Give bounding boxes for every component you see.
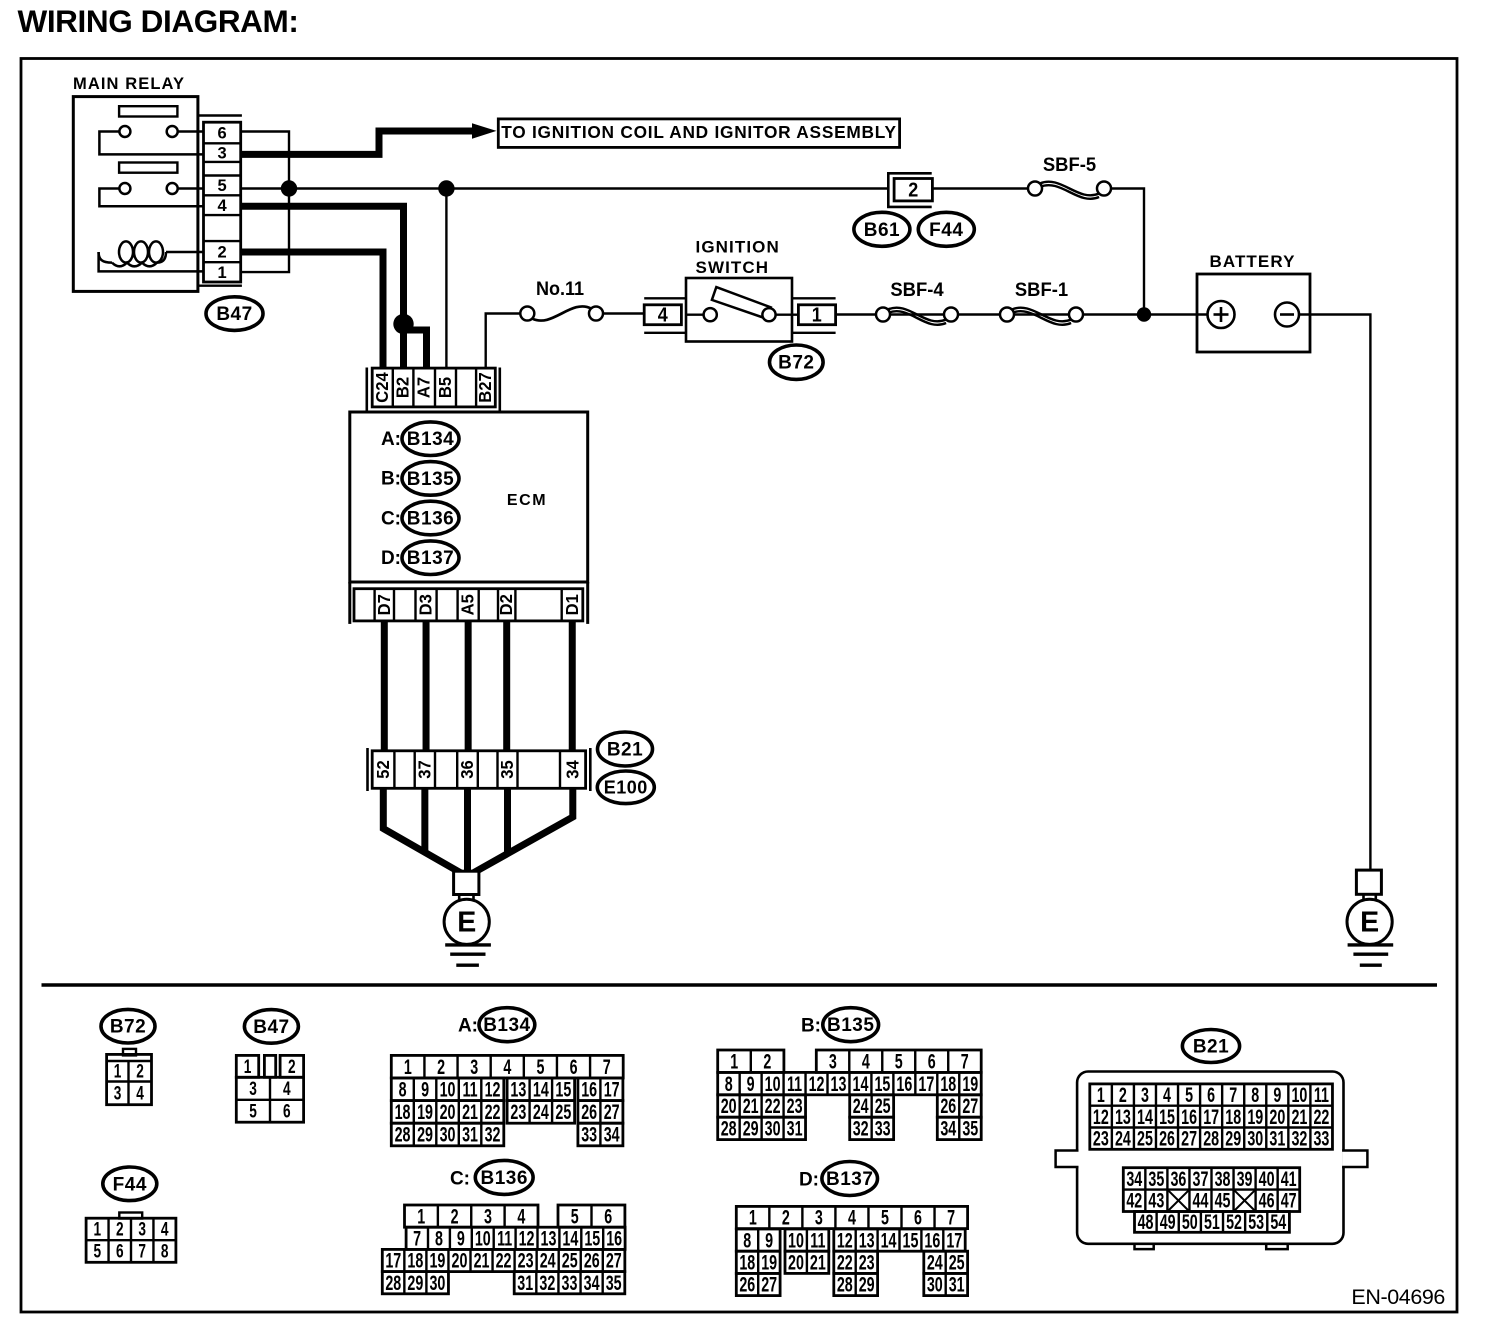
svg-text:5: 5 [93,1241,101,1263]
connector F44 pinout [86,1213,176,1263]
relay contact 1b [167,126,178,137]
svg-text:11: 11 [810,1229,825,1252]
svg-text:A5: A5 [458,594,477,615]
wire D2 to pin 35 [503,621,510,751]
wire relay contact1b to pin 6 [178,130,204,133]
svg-text:4: 4 [136,1082,144,1104]
svg-text:3: 3 [829,1050,837,1073]
svg-text:D:: D: [381,548,401,569]
wire A5 to pin 36 [465,621,472,751]
svg-text:7: 7 [947,1206,955,1229]
svg-text:26: 26 [584,1249,600,1272]
connector ECM top strip cells C24 B2 A7 B5 B27 [372,368,495,407]
svg-text:SBF-1: SBF-1 [1015,279,1068,300]
svg-text:25: 25 [949,1251,965,1274]
svg-text:37: 37 [415,760,434,778]
svg-text:B47: B47 [253,1017,289,1038]
svg-text:5: 5 [1185,1083,1193,1106]
connector label E100 oval [597,771,654,804]
svg-text:28: 28 [395,1123,411,1146]
svg-text:45: 45 [1215,1189,1231,1212]
svg-text:F44: F44 [113,1174,147,1195]
svg-text:12: 12 [837,1229,853,1252]
svg-text:18: 18 [1225,1105,1241,1128]
svg-text:A:: A: [458,1016,478,1037]
svg-text:32: 32 [853,1117,869,1140]
svg-text:31: 31 [787,1117,803,1140]
wire relay contact2 to pin 4 [99,189,203,207]
wire pin4 to ECM B2 [241,206,404,369]
svg-text:30: 30 [927,1273,943,1296]
svg-text:8: 8 [743,1229,751,1252]
svg-text:42: 42 [1126,1189,1142,1212]
svg-text:2: 2 [451,1205,459,1228]
connector B47 pin strip cells 6 3 5 4 2 1 [204,122,241,282]
connector B21 shell [1056,1072,1368,1250]
svg-text:21: 21 [810,1251,826,1274]
connector B47 pin strip bracket [198,116,242,286]
svg-text:52: 52 [373,760,392,778]
svg-text:7: 7 [603,1055,611,1078]
svg-text:31: 31 [1269,1127,1285,1150]
svg-text:E100: E100 [604,777,648,797]
wire coil left to pin 1 [99,252,204,271]
svg-text:35: 35 [1148,1167,1164,1190]
svg-text:6: 6 [1207,1083,1215,1106]
svg-text:9: 9 [747,1072,755,1095]
svg-text:13: 13 [541,1227,557,1250]
svg-text:20: 20 [452,1249,468,1272]
svg-text:17: 17 [385,1249,401,1272]
wire pin 35 to ground [504,788,511,853]
wire SBF-5 to junction [1111,189,1144,315]
svg-text:14: 14 [853,1072,869,1095]
connector B135 pinout [718,1050,982,1141]
svg-text:F44: F44 [929,220,963,241]
connector label C: B136 oval [381,501,459,535]
svg-text:1: 1 [404,1055,412,1078]
svg-text:11: 11 [497,1227,512,1250]
junction dot B2-A7 [393,314,413,334]
wire B27 to fuse No.11 [486,314,521,370]
svg-text:32: 32 [539,1271,555,1294]
svg-text:22: 22 [765,1095,781,1118]
svg-text:1: 1 [1097,1083,1105,1106]
svg-text:D:: D: [799,1170,819,1191]
title WIRING DIAGRAM [18,3,299,39]
wire pin 34 to ground [470,788,573,875]
svg-text:6: 6 [570,1055,578,1078]
wire pin2 to ECM C24 [241,252,383,369]
svg-text:24: 24 [1115,1127,1131,1150]
svg-text:5: 5 [218,177,227,195]
section divider line [42,983,1438,987]
wire relay contact2b to pin 5 [178,187,204,190]
svg-text:10: 10 [1291,1083,1307,1106]
svg-text:B136: B136 [407,509,454,530]
svg-text:5: 5 [571,1205,579,1228]
svg-text:26: 26 [940,1095,956,1118]
svg-text:40: 40 [1259,1167,1275,1190]
svg-text:29: 29 [407,1271,423,1294]
ECM U1 box [350,412,588,582]
junction dot B5 branch [438,180,454,196]
svg-text:49: 49 [1160,1210,1176,1233]
svg-text:27: 27 [761,1273,777,1296]
connector label F44 oval [918,212,974,246]
svg-text:33: 33 [1313,1127,1329,1150]
svg-text:33: 33 [875,1117,891,1140]
svg-text:18: 18 [940,1072,956,1095]
svg-text:12: 12 [519,1227,535,1250]
svg-text:17: 17 [946,1229,962,1252]
svg-text:23: 23 [859,1251,875,1274]
svg-text:24: 24 [540,1249,556,1272]
svg-text:B72: B72 [110,1017,146,1038]
connector label B: B135 oval bottom [801,1008,879,1042]
wire pin5 main feed [241,187,889,189]
svg-text:28: 28 [837,1273,853,1296]
svg-text:53: 53 [1248,1210,1264,1233]
svg-text:10: 10 [788,1229,804,1252]
svg-text:B47: B47 [216,304,252,325]
wire D1 to pin 34 [569,621,576,751]
svg-text:B61: B61 [864,220,900,241]
svg-text:1: 1 [417,1205,425,1228]
svg-text:2: 2 [288,1056,296,1078]
svg-text:A7: A7 [414,377,433,398]
svg-text:3: 3 [249,1078,257,1100]
svg-text:54: 54 [1270,1210,1286,1233]
connector 2 SBF-5 feed [888,173,932,207]
connector B47 pinout [236,1055,303,1122]
connector label A: B134 oval bottom [458,1008,535,1042]
svg-text:16: 16 [581,1078,597,1101]
connector label B47 oval bottom [244,1010,298,1044]
svg-text:13: 13 [831,1072,847,1095]
svg-text:4: 4 [517,1205,525,1228]
svg-text:18: 18 [739,1251,755,1274]
svg-text:51: 51 [1204,1210,1220,1233]
svg-text:B2: B2 [393,377,412,398]
svg-text:SBF-5: SBF-5 [1043,154,1096,175]
svg-text:32: 32 [1291,1127,1307,1150]
svg-text:5: 5 [881,1206,889,1229]
svg-text:2: 2 [437,1055,445,1078]
svg-text:2: 2 [763,1050,771,1073]
svg-text:28: 28 [721,1117,737,1140]
svg-text:3: 3 [138,1219,146,1241]
svg-text:15: 15 [903,1229,919,1252]
svg-text:3: 3 [470,1055,478,1078]
wire switch to battery positive [836,313,1208,315]
svg-text:19: 19 [1247,1105,1263,1128]
svg-text:A:: A: [381,429,401,450]
connector label B47 oval [206,297,263,331]
ground E right [1347,870,1393,965]
svg-text:29: 29 [1225,1127,1241,1150]
svg-text:25: 25 [555,1100,571,1123]
svg-text:15: 15 [555,1078,571,1101]
svg-text:27: 27 [962,1095,978,1118]
relay label MAIN RELAY [73,75,185,93]
svg-text:TO IGNITION COIL AND IGNITOR A: TO IGNITION COIL AND IGNITOR ASSEMBLY [501,122,897,142]
svg-text:35: 35 [498,760,517,778]
svg-text:3: 3 [114,1082,122,1104]
svg-text:SWITCH: SWITCH [696,258,770,277]
svg-text:B134: B134 [483,1015,530,1036]
wire pin 37 to ground [421,788,428,852]
svg-text:4: 4 [161,1219,169,1241]
connector B21 pin grid 48-54 [1135,1210,1290,1233]
svg-text:20: 20 [721,1095,737,1118]
connector B21 E100 strip cells 52 37 36 35 34 [372,751,585,789]
svg-text:15: 15 [584,1227,600,1250]
connector B137 pinout [736,1206,967,1296]
svg-text:23: 23 [518,1249,534,1272]
svg-text:9: 9 [457,1227,465,1250]
svg-text:27: 27 [606,1249,622,1272]
svg-text:16: 16 [606,1227,622,1250]
wire B5 riser [445,189,447,370]
svg-text:10: 10 [765,1072,781,1095]
svg-text:35: 35 [606,1271,622,1294]
connector ECM top strip brackets [367,368,500,412]
svg-text:7: 7 [1229,1083,1237,1106]
connector label B21 oval [598,732,653,766]
svg-text:30: 30 [429,1271,445,1294]
svg-text:4: 4 [1163,1083,1171,1106]
wire pin3 to ignition coil arrow [241,123,497,154]
svg-text:B21: B21 [1193,1037,1229,1058]
svg-text:23: 23 [1093,1127,1109,1150]
svg-text:34: 34 [1126,1167,1142,1190]
svg-text:22: 22 [837,1251,853,1274]
svg-text:2: 2 [116,1219,124,1241]
svg-text:28: 28 [1203,1127,1219,1150]
wire branch to ECM A7 [404,327,427,370]
junction dot relay tie [281,180,297,196]
svg-text:2: 2 [218,243,227,261]
svg-text:11: 11 [1314,1083,1329,1106]
wire D3 to pin 37 [423,621,430,751]
svg-text:30: 30 [765,1117,781,1140]
svg-text:29: 29 [859,1273,875,1296]
svg-text:C:: C: [381,508,401,529]
switch SW1 ignition switch box [686,278,798,342]
svg-text:27: 27 [1181,1127,1197,1150]
svg-text:34: 34 [563,760,582,779]
wire pin 52 to ground [383,788,464,875]
connector ECM bottom strip cells D7 D3 A5 D2 D1 [354,589,583,621]
svg-text:No.11: No.11 [536,278,584,300]
svg-text:8: 8 [1251,1083,1259,1106]
svg-text:4: 4 [862,1050,870,1073]
connector B21 pin grid 1-33 [1090,1083,1333,1150]
relay contact bar 1 [119,106,177,116]
svg-text:8: 8 [161,1241,169,1263]
svg-text:24: 24 [853,1095,869,1118]
svg-text:B:: B: [801,1016,821,1037]
svg-text:5: 5 [536,1055,544,1078]
svg-text:41: 41 [1281,1167,1297,1190]
svg-text:30: 30 [1247,1127,1263,1150]
connector B21 pin grid 34-47 [1123,1167,1299,1212]
svg-text:10: 10 [475,1227,491,1250]
svg-text:27: 27 [604,1100,620,1123]
connector label B72 oval bottom [101,1009,155,1043]
svg-text:25: 25 [875,1095,891,1118]
svg-text:26: 26 [581,1100,597,1123]
svg-text:5: 5 [895,1050,903,1073]
svg-text:21: 21 [462,1100,478,1123]
svg-text:6: 6 [914,1206,922,1229]
svg-text:6: 6 [283,1100,291,1122]
relay contact 1a [119,126,130,137]
figure number EN-04696 [1351,1285,1445,1309]
svg-text:34: 34 [604,1123,620,1146]
connector B21 E100 strip brackets [368,748,591,791]
ground E left [444,871,491,965]
svg-text:18: 18 [395,1100,411,1123]
svg-text:2: 2 [1119,1083,1127,1106]
battery negative terminal [1275,303,1299,327]
svg-text:8: 8 [435,1227,443,1250]
fuse No.11 [520,278,603,321]
battery positive terminal [1208,301,1235,328]
svg-text:52: 52 [1226,1210,1242,1233]
svg-text:43: 43 [1148,1189,1164,1212]
svg-text:B:: B: [381,469,401,490]
svg-text:19: 19 [761,1251,777,1274]
svg-text:4: 4 [218,197,228,215]
fuse SBF-4 [876,279,958,325]
svg-text:2: 2 [136,1061,144,1083]
svg-text:2: 2 [782,1206,790,1229]
svg-text:31: 31 [949,1273,965,1296]
fuse SBF-5 [932,154,1111,199]
svg-text:19: 19 [962,1072,978,1095]
svg-text:10: 10 [440,1078,456,1101]
connector label B61 oval [854,212,910,246]
svg-text:15: 15 [874,1072,890,1095]
svg-text:1: 1 [93,1219,101,1241]
svg-text:B5: B5 [436,377,455,398]
svg-text:C:: C: [450,1169,470,1190]
svg-text:1: 1 [812,305,822,327]
svg-text:24: 24 [533,1100,549,1123]
fuse SBF-1 [1000,279,1083,325]
svg-text:7: 7 [413,1227,421,1250]
svg-text:1: 1 [749,1206,757,1229]
ECM label [507,492,547,509]
svg-text:3: 3 [484,1205,492,1228]
svg-text:9: 9 [421,1078,429,1101]
relay contact 2a [119,183,130,194]
svg-text:20: 20 [788,1251,804,1274]
wire pin 36 to ground [464,788,471,875]
connector pin 1 ignition switch [792,298,836,333]
svg-text:1: 1 [730,1050,738,1073]
svg-text:15: 15 [1159,1105,1175,1128]
connector label D: B137 oval [381,541,459,575]
svg-text:13: 13 [510,1078,526,1101]
svg-text:B135: B135 [827,1015,874,1036]
wire coil right to pin 2 [166,251,204,254]
svg-text:36: 36 [458,760,477,778]
svg-text:44: 44 [1193,1189,1209,1212]
connector label D: B137 oval bottom [799,1162,878,1196]
svg-text:B137: B137 [826,1169,873,1190]
svg-text:23: 23 [510,1100,526,1123]
connector label F44 oval bottom [103,1167,157,1201]
svg-text:D3: D3 [416,594,435,615]
svg-text:46: 46 [1259,1189,1275,1212]
battery label [1209,252,1295,271]
label box TO IGNITION COIL AND IGNITOR ASSEMBLY [498,119,899,147]
connector B72 pinout [107,1049,152,1105]
svg-text:31: 31 [462,1123,478,1146]
svg-text:MAIN RELAY: MAIN RELAY [73,75,185,93]
svg-text:11: 11 [787,1072,802,1095]
svg-text:38: 38 [1215,1167,1231,1190]
svg-text:D7: D7 [374,594,393,615]
svg-text:33: 33 [581,1123,597,1146]
svg-text:31: 31 [517,1271,533,1294]
connector label A: B134 oval [381,422,459,456]
wire D7 to pin 52 [381,621,388,751]
connector ECM bottom strip brackets [350,582,588,624]
svg-text:B134: B134 [407,429,454,450]
svg-text:21: 21 [743,1095,759,1118]
svg-text:8: 8 [399,1078,407,1101]
connector label B21 oval bottom [1182,1030,1239,1063]
svg-text:BATTERY: BATTERY [1209,252,1295,271]
svg-text:12: 12 [485,1078,501,1101]
svg-text:1: 1 [114,1061,122,1083]
svg-text:50: 50 [1182,1210,1198,1233]
svg-text:20: 20 [440,1100,456,1123]
svg-text:34: 34 [940,1117,956,1140]
svg-text:26: 26 [739,1273,755,1296]
svg-text:3: 3 [815,1206,823,1229]
svg-text:B135: B135 [407,469,454,490]
svg-text:17: 17 [1203,1105,1219,1128]
svg-text:5: 5 [249,1100,257,1122]
svg-text:C24: C24 [373,372,392,403]
connector B134 pinout [391,1055,623,1146]
svg-text:B21: B21 [607,740,643,761]
svg-text:7: 7 [138,1241,146,1263]
svg-text:EN-04696: EN-04696 [1351,1285,1445,1309]
wire battery negative to ground [1299,315,1370,870]
svg-text:ECM: ECM [507,492,547,509]
svg-text:B72: B72 [778,353,814,374]
svg-text:4: 4 [283,1078,291,1100]
svg-text:22: 22 [1313,1105,1329,1128]
svg-text:6: 6 [116,1241,124,1263]
svg-text:6: 6 [928,1050,936,1073]
svg-text:E: E [457,907,476,939]
svg-text:B136: B136 [480,1168,527,1189]
svg-text:17: 17 [918,1072,934,1095]
svg-text:14: 14 [881,1229,897,1252]
svg-text:23: 23 [787,1095,803,1118]
svg-text:34: 34 [584,1271,600,1294]
svg-text:33: 33 [562,1271,578,1294]
svg-text:29: 29 [743,1117,759,1140]
svg-text:SBF-4: SBF-4 [890,279,944,300]
